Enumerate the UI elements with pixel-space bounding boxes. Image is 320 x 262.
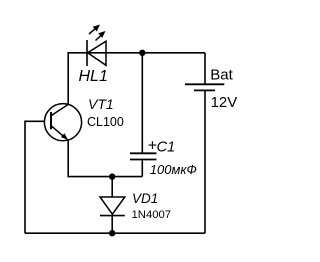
svg-text:CL100: CL100 bbox=[87, 115, 124, 129]
wire bottom rail bbox=[25, 232, 205, 234]
battery Bat bbox=[185, 84, 224, 90]
diode VD1 symbol bbox=[100, 197, 125, 216]
svg-text:Bat: Bat bbox=[210, 66, 233, 83]
svg-text:1N4007: 1N4007 bbox=[132, 209, 172, 221]
wire: VD1 cathode drop bbox=[111, 216, 113, 234]
led light arrow 1 bbox=[89, 25, 100, 35]
wire: VT1 emitter drop bbox=[68, 141, 142, 177]
svg-text:VT1: VT1 bbox=[88, 96, 114, 112]
wire: node to VD1 anode bbox=[111, 177, 113, 197]
led light arrow 2 bbox=[96, 31, 106, 41]
svg-text:C1: C1 bbox=[157, 140, 176, 156]
svg-text:12V: 12V bbox=[211, 94, 238, 111]
svg-text:100мкФ: 100мкФ bbox=[150, 162, 197, 177]
node: bottom junction bbox=[109, 230, 115, 236]
wire: battery minus to bottom rail bbox=[204, 90, 206, 233]
wire top: LED anode to battery plus bbox=[87, 52, 205, 54]
capacitor C1 plates bbox=[130, 153, 157, 159]
node: emitter junction bbox=[109, 173, 115, 179]
wire: left rail to VT1 base bbox=[25, 121, 45, 233]
led HL1 symbol bbox=[87, 40, 106, 66]
transistor VT1 bbox=[44, 104, 81, 141]
node: top junction bbox=[139, 50, 145, 56]
wire: C1 top branch bbox=[141, 53, 143, 154]
wire: LED cathode to VT1 collector bbox=[68, 53, 87, 104]
svg-text:VD1: VD1 bbox=[132, 191, 158, 206]
svg-text:HL1: HL1 bbox=[79, 68, 108, 85]
wire: battery plus drop bbox=[204, 53, 206, 85]
wire: C1 bottom branch bbox=[141, 160, 143, 177]
